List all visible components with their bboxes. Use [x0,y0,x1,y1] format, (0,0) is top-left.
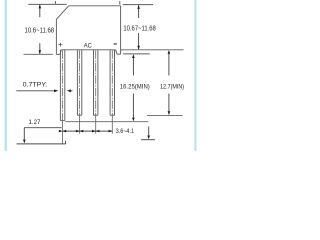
body top edge [69,5,121,7]
lead 2 centerline extension below [79,115,81,133]
lead 3 right edge [97,50,99,115]
dimension 10.6~11.68 left [39,4,41,54]
body left edge [55,19,57,54]
svg-text:10.6~11.68: 10.6~11.68 [25,25,55,34]
left blue border line [5,0,7,151]
svg-text:1.27: 1.27 [29,119,41,126]
top extension line right [123,4,153,6]
dimension 10.67~11.68 right [138,5,140,49]
body left foot diagonal [60,50,62,55]
body bottom edge [61,49,115,51]
lead 2 left edge [76,50,78,115]
seating ref line right [123,53,150,55]
outside arrow left of first tick [59,130,63,133]
dimension 1.27 [17,128,66,144]
top extension line left [28,3,67,5]
bottom-left baseline [17,143,66,145]
lead 1 right edge [64,50,66,121]
seating ref line left [24,53,53,55]
lead 2 centerline dash-dot [79,50,81,114]
dimension 0.7TPY. lead width [16,90,72,92]
body right foot bottom [117,53,121,55]
svg-text:+: + [58,42,63,49]
lead 4 right edge [114,50,116,115]
dimension 3.6~4.1 lead pitch chain [63,130,113,132]
lead 4 centerline extension below [111,115,113,133]
lead 3 left edge [93,50,95,115]
body chamfer top-left [56,6,68,19]
lead 3 centerline extension below [95,115,97,133]
body left foot bottom [56,53,59,55]
svg-text:0.7TPY.: 0.7TPY. [23,81,48,88]
extension tick left above body [54,1,56,4]
svg-text:12.7(MIN): 12.7(MIN) [160,83,184,90]
lead 4 left edge [109,50,111,115]
lead1 tip ref line (16.25 bottom) [65,121,148,123]
svg-text:10.67~11.68: 10.67~11.68 [123,23,155,32]
body right edge [120,6,122,54]
lead 1 centerline dash-dot [62,50,64,120]
body right foot diagonal [116,50,118,54]
svg-text:3.6~4.1: 3.6~4.1 [116,128,135,135]
lead 4 centerline dash-dot [111,50,113,114]
lead 2 right edge [81,50,83,115]
lead 3 bottom edge [94,114,98,116]
bottom-right leader arrow [141,127,155,140]
lead 1 left edge [59,50,61,121]
leads tip ref line right (12.7 bottom) [147,114,183,116]
svg-text:16.25(MIN): 16.25(MIN) [120,83,150,90]
body bottom extension line right [121,49,184,51]
lead 3 centerline dash-dot [95,50,97,114]
polarity marking minus [114,43,117,44]
dimension 12.7(MIN) [168,52,170,113]
svg-text:AC: AC [84,42,92,49]
right blue border line [194,0,196,151]
lead 1 centerline extension below [62,121,64,144]
dimension 16.25(MIN) [132,56,134,119]
baseline end tick [65,141,67,144]
extension tick right above body [119,1,121,5]
lead 2 bottom edge [77,114,81,116]
lead 1 bottom edge [60,120,64,122]
lead 4 bottom edge [110,114,114,116]
